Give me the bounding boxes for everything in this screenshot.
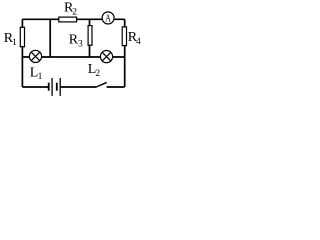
svg-text:2: 2 xyxy=(95,69,100,79)
svg-text:2: 2 xyxy=(72,8,77,18)
svg-text:3: 3 xyxy=(78,40,83,50)
svg-text:1: 1 xyxy=(38,72,43,82)
svg-text:A: A xyxy=(105,13,111,24)
svg-text:1: 1 xyxy=(12,38,17,48)
svg-text:4: 4 xyxy=(136,37,141,47)
